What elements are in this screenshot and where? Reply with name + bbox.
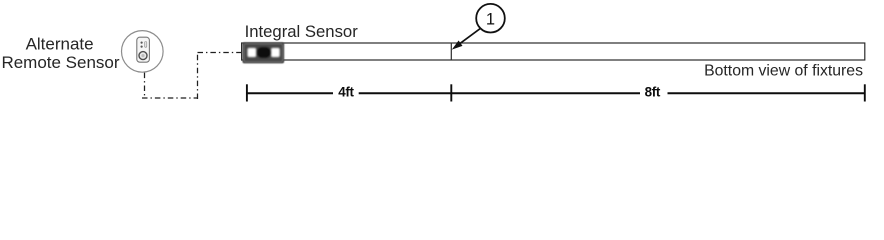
dimension tick left bbox=[246, 84, 248, 101]
fixture divider at 4ft/8ft joint bbox=[450, 44, 452, 60]
dimension tick right bbox=[864, 84, 866, 101]
label: Alternate Remote Sensor bbox=[1, 34, 119, 71]
remote sensor body bbox=[137, 37, 150, 62]
label: Bottom view of fixtures bbox=[704, 63, 863, 80]
svg-text:Remote Sensor: Remote Sensor bbox=[1, 53, 119, 72]
svg-text:8ft: 8ft bbox=[645, 85, 661, 100]
label: 4ft bbox=[338, 85, 354, 100]
integral sensor block on fixture bbox=[242, 42, 284, 63]
svg-text:4ft: 4ft bbox=[338, 85, 354, 100]
callout leader line bbox=[456, 29, 480, 47]
4ft dimension line bbox=[247, 92, 451, 94]
fixture bar (bottom view, 4ft + 8ft) bbox=[242, 43, 865, 60]
dash-dot connector wire: circle bottom, down, right, up, right to fixture bbox=[142, 53, 242, 100]
svg-text:1: 1 bbox=[486, 10, 495, 28]
callout arrowhead bbox=[452, 41, 463, 50]
8ft dimension line bbox=[451, 92, 865, 94]
dimension tick middle bbox=[450, 84, 452, 101]
remote sensor circle bbox=[122, 31, 164, 73]
label: Integral Sensor bbox=[245, 22, 359, 41]
svg-text:Integral Sensor: Integral Sensor bbox=[245, 22, 359, 41]
callout circle 1 bbox=[476, 4, 505, 33]
label: 8ft bbox=[645, 85, 661, 100]
svg-text:Alternate: Alternate bbox=[26, 34, 94, 53]
svg-text:Bottom view of fixtures: Bottom view of fixtures bbox=[704, 63, 863, 80]
